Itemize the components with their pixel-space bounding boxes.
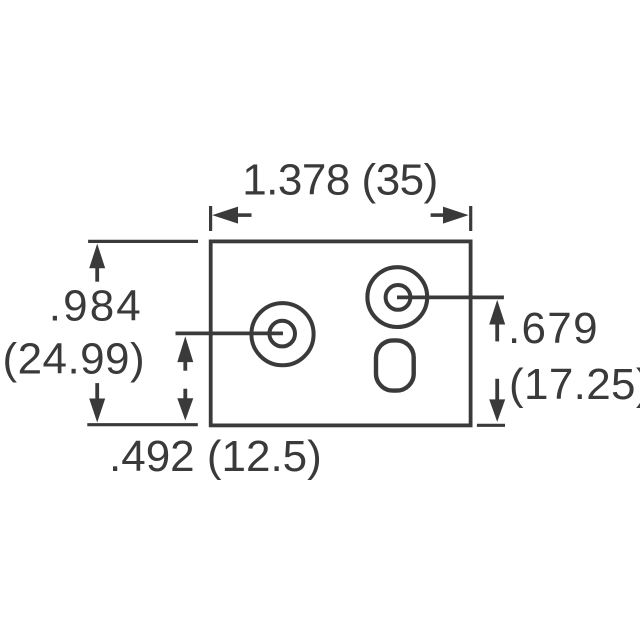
svg-text:1.378 (35): 1.378 (35) — [242, 156, 438, 205]
svg-text:.984: .984 — [49, 281, 143, 330]
svg-text:.679: .679 — [508, 304, 599, 353]
svg-text:(24.99): (24.99) — [3, 335, 146, 384]
svg-text:.492 (12.5): .492 (12.5) — [109, 432, 322, 481]
svg-text:(17.25): (17.25) — [509, 360, 640, 409]
